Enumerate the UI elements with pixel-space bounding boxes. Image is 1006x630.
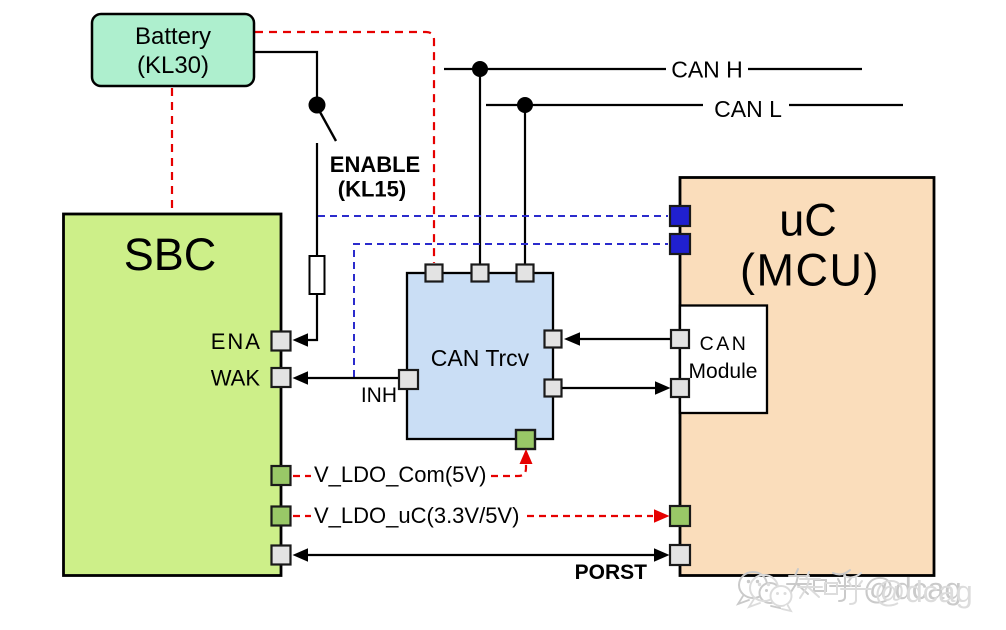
label CAN L xyxy=(714,96,782,122)
switch ENABLE (KL15) lever xyxy=(320,112,336,141)
svg-text:WAK: WAK xyxy=(211,366,261,391)
pin: SBC V_LDO_Com (green) xyxy=(272,466,291,485)
wire: red dashed V_LDO_uC from SBC pin xyxy=(293,515,311,517)
pin: CAN Trcv INH (left) xyxy=(399,370,418,389)
node: CAN H junction dot xyxy=(472,61,488,77)
svg-text:CAN Trcv: CAN Trcv xyxy=(431,345,530,371)
svg-text:(MCU): (MCU) xyxy=(740,245,880,296)
pin: CAN Trcv VBAT (top 1) xyxy=(426,265,443,282)
label ENA xyxy=(211,329,262,354)
wire: red dashed V_LDO_Com(5V) from SBC pin xyxy=(293,475,311,477)
pin: CAN module TX (left 2) xyxy=(671,379,689,397)
switch ENABLE (KL15) contact dot xyxy=(309,97,326,114)
svg-text:uC: uC xyxy=(779,195,837,246)
wire: switch to resistor xyxy=(316,143,318,256)
label INH xyxy=(361,384,397,407)
svg-text:Battery: Battery xyxy=(135,23,211,50)
pin: uC PORST xyxy=(670,545,690,565)
pin: uC V_LDO_uC supply (green) xyxy=(670,506,690,526)
wire: CAN L bus line xyxy=(486,104,903,106)
wire: PORST double-arrow between SBC and uC xyxy=(293,548,670,562)
svg-text:ENABLE: ENABLE xyxy=(330,152,420,177)
uC (MCU) block xyxy=(680,178,934,576)
wire: CAN H drop to CAN Trcv pin xyxy=(479,69,481,264)
wire: red dashed V_LDO_Com to CAN Trcv VCC pin with up arrowhead xyxy=(491,449,533,476)
svg-text:ENA: ENA xyxy=(211,329,262,354)
CAN Trcv transceiver block xyxy=(407,273,553,439)
wire: resistor to SBC ENA pin with arrowhead xyxy=(293,294,318,347)
wire: CAN L drop to CAN Trcv pin xyxy=(524,105,526,264)
svg-text:(KL15): (KL15) xyxy=(338,177,406,202)
wire: CAN H bus line xyxy=(444,68,862,70)
wire: CAN Trcv TXD to uC CAN module with arrowhead xyxy=(562,381,671,395)
svg-text:(KL30): (KL30) xyxy=(137,52,209,79)
svg-text:V_LDO_Com(5V): V_LDO_Com(5V) xyxy=(314,462,486,487)
node: CAN L junction dot xyxy=(517,97,533,113)
pin: SBC PORST xyxy=(272,546,291,565)
pin: CAN Trcv CANH (top 2) xyxy=(472,265,489,282)
pin: SBC WAK xyxy=(272,368,291,387)
wire: battery KL30 red dashed feed to SBC top xyxy=(171,88,173,212)
pin: uC ENABLE (blue 1) xyxy=(670,206,690,226)
svg-text:@dcag: @dcag xyxy=(874,574,973,609)
wire: battery to ENABLE switch xyxy=(255,52,317,97)
wire: red dashed V_LDO_uC to uC supply pin with arrowhead xyxy=(527,509,670,523)
svg-text:PORST: PORST xyxy=(575,561,648,584)
svg-text:V_LDO_uC(3.3V/5V): V_LDO_uC(3.3V/5V) xyxy=(314,503,519,528)
label V_LDO_uC(3.3V/5V) xyxy=(314,503,519,528)
svg-text:Module: Module xyxy=(689,360,758,383)
svg-text:INH: INH xyxy=(361,384,397,407)
svg-text:CAN: CAN xyxy=(700,333,749,355)
label CAN H xyxy=(671,57,743,83)
label ENABLE (KL15) xyxy=(330,152,420,202)
pin: uC INH sense (blue 2) xyxy=(670,234,690,254)
svg-text:CAN L: CAN L xyxy=(714,96,782,122)
pin: CAN Trcv TXD (right 2) xyxy=(545,380,562,397)
pin: CAN Trcv CANL (top 3) xyxy=(517,265,534,282)
svg-text:CAN H: CAN H xyxy=(671,57,743,83)
label PORST xyxy=(575,561,648,584)
pin: SBC V_LDO_uC (green) xyxy=(272,507,291,526)
pin: CAN Trcv RXD (right 1) xyxy=(545,331,562,348)
CAN Module block inside uC xyxy=(680,306,767,414)
wire: CAN Trcv INH to SBC WAK with arrowhead xyxy=(293,371,399,385)
wire: blue dashed INH net to uC pin 2 xyxy=(354,244,668,377)
resistor (series, unlabeled) xyxy=(310,256,325,294)
wire: blue dashed ENABLE to uC pin 1 xyxy=(318,215,668,217)
label V_LDO_Com(5V) xyxy=(314,462,486,487)
pin: SBC ENA xyxy=(272,332,291,351)
svg-text:SBC: SBC xyxy=(124,229,217,280)
label WAK xyxy=(211,366,261,391)
pin: CAN Trcv VCC (bottom, green) xyxy=(516,430,535,449)
SBC block xyxy=(64,214,282,576)
wire: battery KL30 red dashed feed to CAN Trcv VBAT pin xyxy=(255,32,434,263)
wire: uC CAN module to CAN Trcv RXD with arrowhead xyxy=(564,332,671,346)
pin: CAN module RX (left 1) xyxy=(671,330,689,348)
battery (KL30) xyxy=(92,14,254,86)
